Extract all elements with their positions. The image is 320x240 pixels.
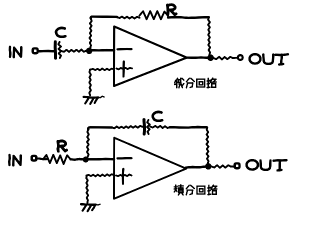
wire junction to op-amp minus input (top): [92, 49, 115, 52]
output terminal (top): [238, 55, 243, 60]
ground GND2: [81, 203, 96, 206]
wire resistor to right corner (top): [168, 16, 209, 19]
wire op-amp output (top): [187, 56, 208, 59]
node inverting junction (bottom): [83, 157, 89, 163]
wire plus input to ground (top): [91, 69, 115, 71]
wire riser junction up (top): [90, 19, 92, 48]
wire output to terminal (bottom): [212, 165, 232, 168]
wire plus input to ground (bottom): [86, 174, 114, 176]
wire output to terminal (top): [214, 57, 234, 60]
op-amp U2 minus sign: [118, 157, 132, 159]
node output junction (top): [207, 54, 214, 61]
label C (bottom): [153, 112, 162, 121]
label R (top): [166, 5, 169, 15]
node inverting junction (top): [86, 48, 92, 54]
op-amp U2 plus sign: [116, 175, 132, 177]
capacitor C1 left plate: [54, 42, 57, 58]
resistor R2: [43, 155, 71, 164]
wire feedback top left (bottom): [88, 127, 112, 129]
label bibun kairo: [174, 80, 177, 83]
wire IN terminal to C (top): [38, 50, 54, 53]
output terminal (bottom): [235, 163, 240, 168]
wire riser junction up (bottom): [87, 130, 89, 158]
label IN (top): [9, 47, 12, 57]
wire feedback top left (top): [91, 17, 117, 19]
capacitor C2 right plate: [147, 120, 150, 134]
label IN (bottom): [8, 155, 11, 165]
label OUT (top): [250, 54, 261, 63]
wire right vertical down (bottom): [207, 127, 209, 163]
capacitor C1 right plate: [58, 42, 61, 58]
wire IN terminal to R (bottom): [37, 157, 47, 160]
wire right vertical down (top): [208, 17, 210, 55]
node output junction (bottom): [205, 163, 211, 169]
capacitor C2 left plate: [143, 120, 147, 134]
input terminal (bottom): [32, 156, 37, 161]
op-amp U1 plus sign: [117, 68, 133, 70]
op-amp U1 triangle: [114, 27, 187, 87]
op-amp U1 minus sign: [118, 48, 132, 50]
ground GND1: [84, 96, 99, 99]
label OUT (bottom): [247, 160, 259, 169]
wire C to inverting node (top): [62, 50, 87, 52]
wire R to junction (bottom): [71, 158, 84, 161]
input terminal (top): [33, 48, 38, 53]
op-amp U2 triangle: [114, 138, 186, 199]
wire junction to op-amp minus input (bottom): [89, 158, 114, 161]
resistor R1: [140, 11, 169, 19]
label R (bottom): [57, 141, 60, 151]
wire C to right corner (bottom): [150, 126, 170, 128]
label C (top): [56, 28, 65, 37]
label sekibun kairo: [174, 186, 177, 188]
wire op-amp output (bottom): [186, 167, 206, 168]
